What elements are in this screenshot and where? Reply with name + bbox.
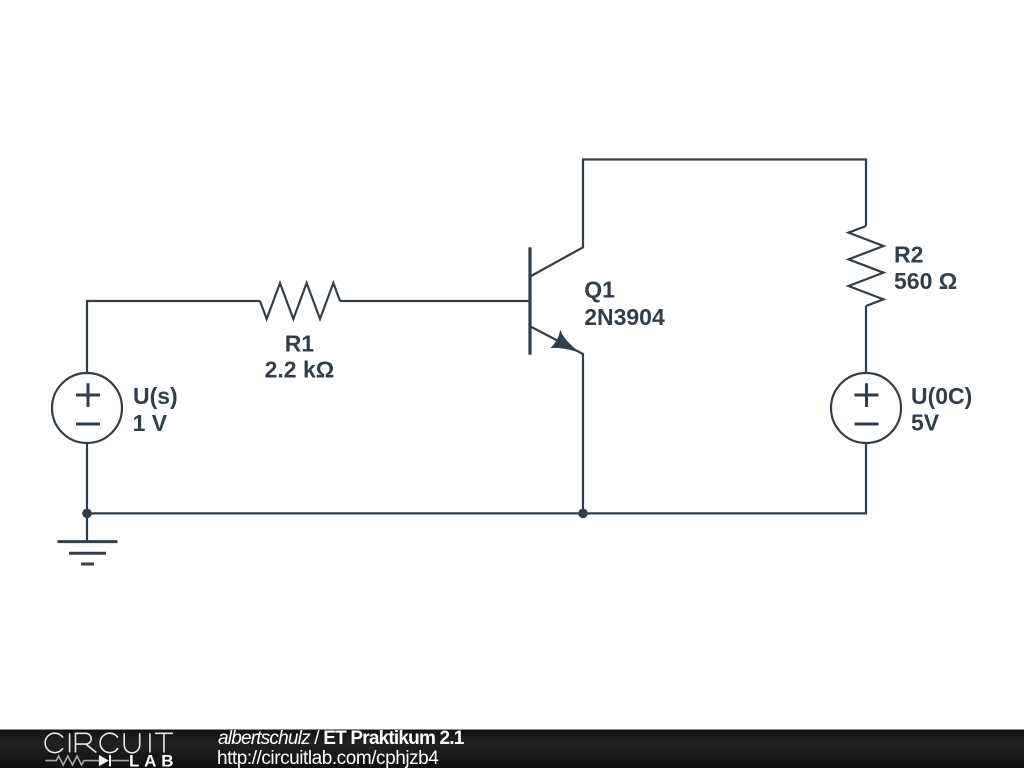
svg-text:R2: R2 (894, 242, 923, 268)
svg-text:LAB: LAB (129, 751, 178, 768)
svg-text:Q1: Q1 (584, 277, 615, 303)
svg-text:2N3904: 2N3904 (584, 304, 665, 330)
svg-text:U(0C): U(0C) (911, 383, 972, 409)
svg-text:2.2 kΩ: 2.2 kΩ (265, 357, 335, 383)
svg-text:5V: 5V (911, 410, 940, 436)
svg-text:1 V: 1 V (133, 410, 168, 436)
svg-text:560 Ω: 560 Ω (894, 268, 957, 294)
svg-text:U(s): U(s) (133, 383, 178, 409)
svg-text:R1: R1 (285, 331, 315, 357)
